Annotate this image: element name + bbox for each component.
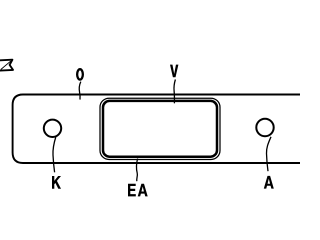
- label EA: [128, 184, 148, 197]
- hole A (right circle): [256, 119, 273, 136]
- leader line O: [79, 82, 81, 100]
- label V: [170, 65, 178, 78]
- broken arrow tail symbol (cut off at left edge): [0, 60, 13, 71]
- leader line EA: [136, 159, 137, 182]
- hole K (left circle): [44, 120, 61, 137]
- break line inside arrow tail: [1, 61, 11, 69]
- strip body (test strip O), rounded left end, runs off right edge: [13, 95, 312, 164]
- window inner frame EA: [103, 101, 217, 157]
- leader line A: [266, 137, 271, 171]
- label O: [77, 69, 83, 79]
- leader line K: [53, 137, 56, 172]
- leader line V: [174, 80, 175, 104]
- window outer frame V: [100, 98, 220, 159]
- label K: [52, 176, 61, 189]
- label A: [264, 176, 274, 189]
